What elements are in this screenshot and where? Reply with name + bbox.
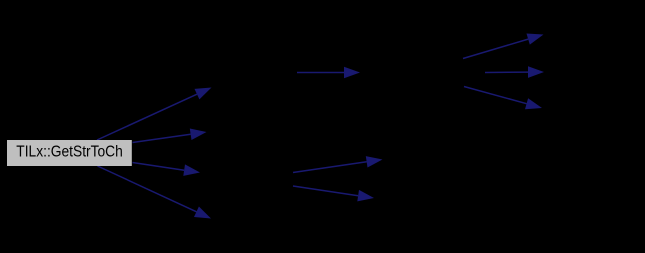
wire F1 edge node6->node7 (463, 34, 544, 59)
wire A3 edge to node4 (133, 163, 201, 176)
svg-text:TILx::GetStrToCh: TILx::GetStrToCh (16, 144, 123, 161)
wire A2 edge to node3 (133, 129, 207, 143)
wire F3 edge node6->node9 (464, 87, 542, 110)
node1 TILx::GetStrToCh (current function box) (7, 140, 132, 166)
wire B1 edge node4->node10 (293, 156, 383, 172)
wire A4 edge to node5 (98, 166, 212, 219)
wire H1 edge node2->node6 (297, 67, 360, 79)
wire A1 edge to node2 (97, 88, 212, 141)
wire F2 edge node6->node8 (485, 66, 544, 78)
wire B2 edge node4->node11 (293, 186, 374, 201)
